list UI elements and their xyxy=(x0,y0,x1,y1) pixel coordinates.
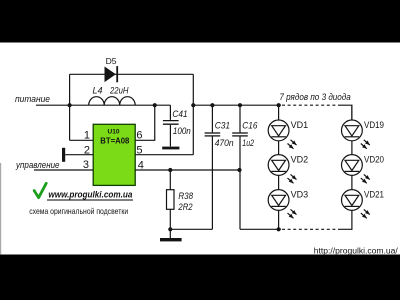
wire: питание stub xyxy=(36,104,70,106)
node: junction VD1 column top xyxy=(277,103,281,107)
pin 1 xyxy=(70,129,94,141)
svg-text:VD2: VD2 xyxy=(291,154,309,164)
wire: right vertical (D5 to pin 5 / output rail) xyxy=(192,74,194,154)
svg-text:C31: C31 xyxy=(215,121,230,131)
svg-text:VD19: VD19 xyxy=(364,120,384,130)
IC U10 BT=A08 xyxy=(93,124,135,185)
wire: VD19-VD20 xyxy=(351,141,353,155)
wire: VD20-VD21 xyxy=(351,176,353,190)
wire: main input rail xyxy=(70,104,171,106)
svg-text:R38: R38 xyxy=(178,191,193,201)
node: junction pin6 branch xyxy=(153,103,157,107)
node: junction pin4 to C16 xyxy=(237,168,241,172)
svg-text:2R2: 2R2 xyxy=(178,202,193,212)
diode D5 xyxy=(105,56,118,82)
svg-text:1: 1 xyxy=(84,129,90,141)
LED VD1 xyxy=(268,120,308,149)
wire: output rail solid segment xyxy=(193,104,281,106)
pin 5 xyxy=(135,144,193,156)
svg-text:http://progulki.com.ua/: http://progulki.com.ua/ xyxy=(314,247,399,256)
pin 2 xyxy=(65,144,93,156)
ground under C41 xyxy=(162,147,179,150)
letterbox top bar xyxy=(0,0,400,43)
inductor L4 22uH xyxy=(89,86,136,106)
LED VD20 xyxy=(342,154,385,183)
node: junction R38 top xyxy=(168,168,172,172)
svg-text:VD1: VD1 xyxy=(291,120,309,130)
LED VD3 xyxy=(268,189,308,218)
LED VD19 xyxy=(342,120,385,149)
svg-text:C16: C16 xyxy=(242,121,257,131)
svg-text:VD3: VD3 xyxy=(291,189,309,199)
svg-text:схема оригинальной подсветки: схема оригинальной подсветки xyxy=(29,206,128,216)
LED VD2 xyxy=(268,154,308,183)
node: junction C16 top xyxy=(238,103,242,107)
svg-text:VD20: VD20 xyxy=(364,154,384,164)
svg-text:www.progulki.com.ua: www.progulki.com.ua xyxy=(48,190,132,201)
wire: bottom rail right corner xyxy=(339,211,352,230)
capacitor C31 470n xyxy=(205,105,234,229)
node: junction ground xyxy=(168,227,172,231)
svg-text:D5: D5 xyxy=(106,56,117,66)
svg-text:3: 3 xyxy=(83,159,89,171)
pin 3 xyxy=(34,159,93,171)
wire: VD1 column feed xyxy=(278,105,280,120)
wire: VD2-VD3 xyxy=(278,176,280,190)
LED VD21 xyxy=(342,189,385,218)
ground under R38 xyxy=(160,229,182,241)
wire: rail dashed segment xyxy=(282,104,339,106)
svg-text:470n: 470n xyxy=(215,138,234,148)
watermark checkmark xyxy=(34,183,46,197)
svg-text:6: 6 xyxy=(136,129,142,141)
svg-text:L4: L4 xyxy=(93,86,103,96)
svg-text:C41: C41 xyxy=(172,109,187,119)
wire: D5 top branch horizontal xyxy=(70,73,194,75)
svg-text:1u2: 1u2 xyxy=(242,138,254,148)
wire: rail right corner down xyxy=(339,105,352,120)
wire: bottom rail middle segment xyxy=(240,228,281,230)
resistor R38 2R2 xyxy=(167,170,194,229)
node: junction input xyxy=(68,103,72,107)
svg-text:100n: 100n xyxy=(173,126,191,136)
control terminal bar xyxy=(62,148,65,162)
capacitor C16 1u2 xyxy=(232,105,257,229)
wire: left vertical (input to pin 1) xyxy=(69,74,71,140)
wire: VD19 column feed xyxy=(351,106,353,120)
capacitor C41 xyxy=(163,105,191,146)
svg-text:питание: питание xyxy=(15,94,50,105)
node: junction VD3 bottom xyxy=(277,227,281,231)
svg-text:VD21: VD21 xyxy=(364,189,384,199)
node: junction rail top xyxy=(191,103,195,107)
svg-text:BT=A08: BT=A08 xyxy=(100,136,130,145)
svg-text:7 рядов по 3 диода: 7 рядов по 3 диода xyxy=(279,92,350,102)
node: junction C31 top xyxy=(210,103,214,107)
watermark www.progulki.com.ua xyxy=(47,190,133,201)
svg-text:управление: управление xyxy=(15,160,59,171)
letterbox bottom bar xyxy=(0,255,400,300)
wire: VD3 to bottom rail xyxy=(278,211,280,230)
svg-text:22uH: 22uH xyxy=(109,86,129,96)
wire: bottom rail dashed segment xyxy=(282,228,339,230)
wire: pin 6 branch xyxy=(135,105,155,140)
svg-text:U10: U10 xyxy=(108,129,120,136)
wire: bottom rail left segment xyxy=(170,228,212,230)
wire: VD1-VD2 xyxy=(278,141,280,155)
pin 4 xyxy=(135,159,239,171)
left edge artifact xyxy=(0,163,1,255)
